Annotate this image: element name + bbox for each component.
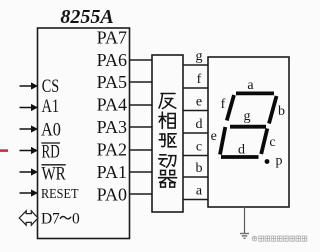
svg-text:A0: A0 bbox=[41, 119, 61, 140]
svg-text:a: a bbox=[196, 184, 203, 199]
svg-text:d: d bbox=[238, 143, 245, 158]
svg-text:c: c bbox=[269, 135, 275, 150]
svg-text:8255A: 8255A bbox=[60, 6, 113, 28]
svg-text:c: c bbox=[196, 140, 202, 155]
svg-text:7: 7 bbox=[52, 211, 60, 228]
svg-text:PA1: PA1 bbox=[97, 162, 127, 182]
svg-text:f: f bbox=[197, 72, 202, 87]
svg-text:0: 0 bbox=[72, 211, 80, 228]
svg-text:PA0: PA0 bbox=[97, 185, 127, 205]
svg-text:PA7: PA7 bbox=[97, 28, 127, 48]
svg-text:RD: RD bbox=[42, 142, 60, 163]
svg-text:WR: WR bbox=[42, 164, 66, 185]
svg-text:a: a bbox=[247, 78, 254, 93]
svg-text:PA3: PA3 bbox=[97, 117, 127, 137]
svg-text:A1: A1 bbox=[42, 96, 60, 117]
svg-text:g: g bbox=[244, 109, 251, 124]
svg-text:b: b bbox=[278, 104, 285, 119]
svg-text:CS: CS bbox=[42, 76, 59, 97]
svg-text:D: D bbox=[41, 211, 52, 228]
svg-text:PA4: PA4 bbox=[97, 95, 127, 115]
svg-text:p: p bbox=[276, 154, 283, 169]
svg-text:g: g bbox=[196, 49, 203, 64]
svg-text:d: d bbox=[196, 117, 203, 132]
svg-text:f: f bbox=[221, 97, 226, 112]
svg-text:RESET: RESET bbox=[41, 187, 79, 202]
svg-text:PA2: PA2 bbox=[97, 140, 127, 160]
svg-text:b: b bbox=[196, 161, 203, 176]
svg-text:PA5: PA5 bbox=[97, 72, 127, 92]
svg-text:PA6: PA6 bbox=[97, 50, 127, 70]
svg-text:e: e bbox=[211, 129, 217, 144]
svg-text:e: e bbox=[196, 95, 202, 110]
